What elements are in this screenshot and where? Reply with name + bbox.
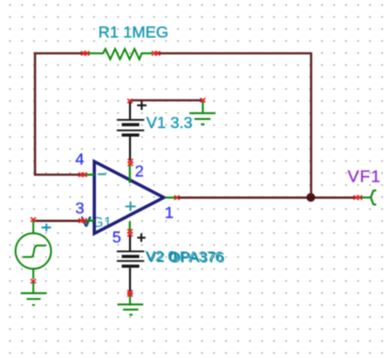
svg-text:V1 3.3: V1 3.3 (146, 115, 192, 132)
svg-text:5: 5 (112, 229, 121, 246)
svg-text:VF1: VF1 (348, 167, 382, 186)
svg-text:4: 4 (75, 151, 84, 168)
svg-text:R1 1MEG: R1 1MEG (98, 25, 168, 42)
svg-text:1: 1 (165, 205, 174, 222)
svg-text:2: 2 (135, 164, 144, 181)
svg-text:3: 3 (75, 200, 84, 217)
svg-text:OPA376: OPA376 (169, 249, 225, 266)
